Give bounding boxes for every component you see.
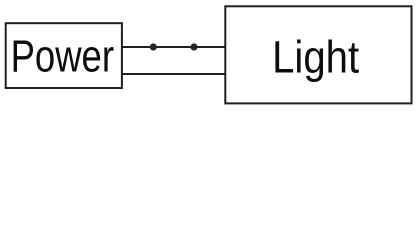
wire top: [122, 46, 225, 48]
junction dot 1: [150, 43, 157, 50]
svg-text:Light: Light: [272, 31, 359, 82]
svg-text:Power: Power: [11, 31, 114, 82]
power source block: [6, 23, 122, 88]
light block: [225, 6, 411, 103]
junction dot 2: [190, 43, 197, 50]
wire bottom: [122, 73, 225, 75]
